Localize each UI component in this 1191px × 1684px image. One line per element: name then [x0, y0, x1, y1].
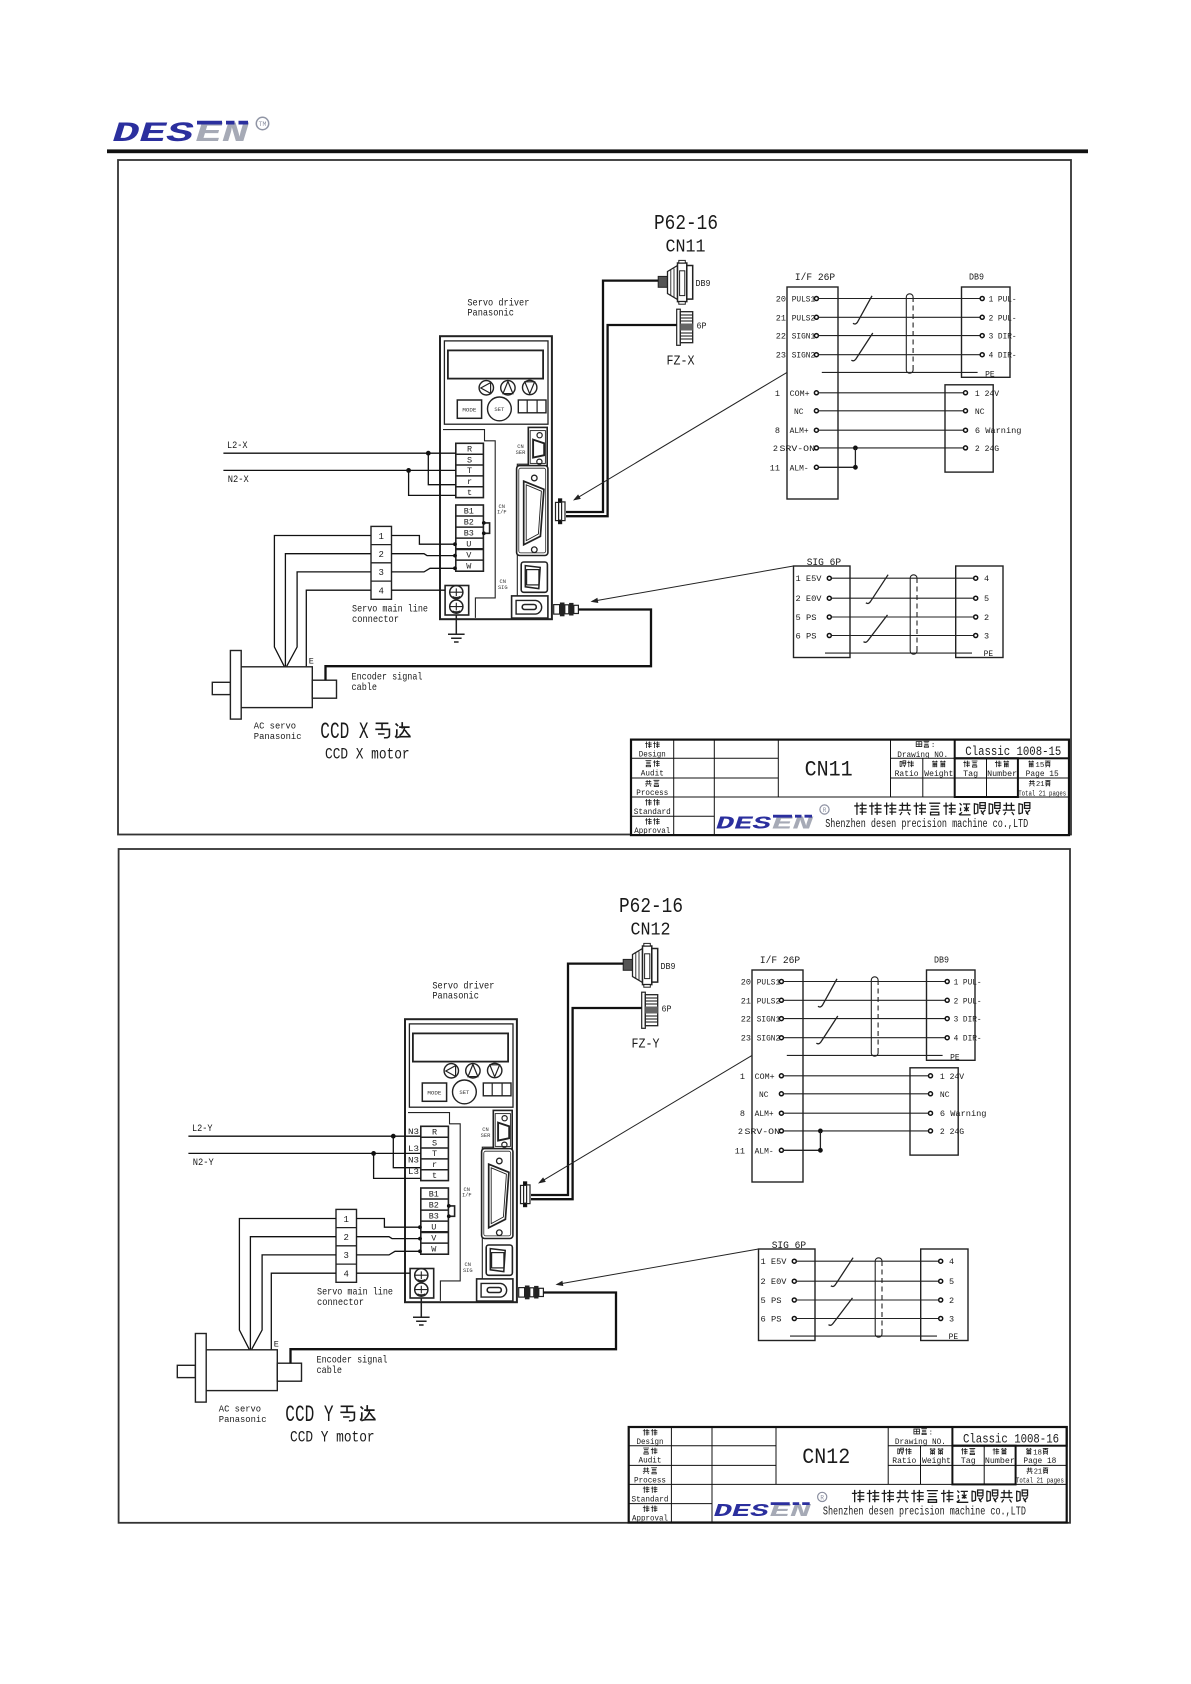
- twist mark pair PS: [829, 1298, 853, 1325]
- connector CN SER (D-sub face): [493, 1110, 512, 1149]
- title Drawing NO.: [895, 1429, 946, 1448]
- svg-text:4: 4: [343, 1269, 348, 1279]
- wire ALM+: [819, 429, 964, 431]
- svg-text:B3: B3: [464, 528, 474, 538]
- svg-text:23: 23: [776, 351, 786, 361]
- svg-text:NC: NC: [759, 1090, 769, 1100]
- svg-text:4: 4: [378, 586, 383, 596]
- wire pin2 to motor: [250, 1237, 336, 1350]
- label Encoder signal cable: [317, 1355, 388, 1378]
- connector SIG 6P box: [759, 1249, 816, 1341]
- svg-text:11: 11: [735, 1146, 745, 1156]
- svg-text:Total 21 pages: Total 21 pages: [1016, 1478, 1064, 1486]
- svg-text:R: R: [820, 1494, 824, 1501]
- header rule: [107, 149, 1088, 153]
- logo DESEN header: [113, 117, 269, 150]
- wire pin1 to U: [357, 1219, 422, 1230]
- title col Number: [985, 1448, 1015, 1466]
- label PE: [950, 1052, 960, 1062]
- svg-text:Approval: Approval: [634, 828, 670, 836]
- button up-arrow: [501, 381, 515, 395]
- cable from 6P plug to CN I/F: [566, 325, 677, 516]
- label CCD X motor (Chinese): [320, 719, 410, 745]
- svg-text:3: 3: [984, 632, 989, 642]
- svg-text:Page 18: Page 18: [1023, 1458, 1056, 1466]
- pin NC: [794, 407, 818, 417]
- wire pin2 to motor: [285, 554, 371, 667]
- svg-text:2: 2: [984, 613, 989, 623]
- svg-text:DES: DES: [716, 814, 772, 835]
- servo driver U1 outline: [440, 336, 552, 619]
- svg-text:PULS1: PULS1: [757, 978, 781, 988]
- pin 6 PS: [796, 632, 832, 642]
- svg-text:Ratio: Ratio: [895, 771, 919, 779]
- wire COM+: [819, 392, 964, 394]
- label PE SIG: [949, 1332, 959, 1342]
- pin 1 COM+: [740, 1072, 784, 1082]
- svg-text:NC: NC: [794, 407, 804, 417]
- pin 4 (right): [939, 1257, 954, 1267]
- wire pin3 to W: [392, 566, 457, 572]
- wire SIG row 1: [831, 577, 973, 579]
- svg-text:1 PUL-: 1 PUL-: [954, 978, 982, 988]
- svg-text:21: 21: [1036, 781, 1044, 789]
- title row Design: [637, 1429, 664, 1447]
- button left-arrow: [479, 381, 493, 395]
- pin 2 SRV-ON: [773, 444, 819, 454]
- svg-text:CCD Y: CCD Y: [285, 1402, 333, 1428]
- plug into CN I/F: [521, 1182, 531, 1207]
- connector SIG 6P box: [794, 566, 851, 658]
- svg-text:P62-16: P62-16: [619, 896, 683, 919]
- leader arrow to CN I/F plug: [538, 1055, 752, 1183]
- terminal strip R S T r t: [421, 1126, 449, 1181]
- svg-text:DES: DES: [714, 1501, 770, 1522]
- svg-text:connector: connector: [352, 614, 399, 626]
- svg-text:1 24V: 1 24V: [940, 1072, 965, 1082]
- svg-text:B2: B2: [429, 1200, 439, 1210]
- svg-text:DB9: DB9: [661, 962, 676, 972]
- button up-arrow: [466, 1064, 480, 1078]
- svg-text:Panasonic: Panasonic: [432, 991, 479, 1003]
- svg-text:DB9: DB9: [969, 272, 984, 282]
- label I/F 26P: [760, 955, 800, 967]
- svg-text:Process: Process: [636, 790, 668, 798]
- svg-text:20: 20: [776, 295, 786, 305]
- wire pin2 to V: [357, 1237, 422, 1241]
- title total pages cell: [1018, 780, 1066, 798]
- wire L2-Y to R: [188, 1134, 420, 1139]
- title col Weight: [924, 761, 953, 779]
- pin 1 24V: [929, 1072, 965, 1082]
- svg-text:2 E0V: 2 E0V: [761, 1277, 788, 1287]
- connector 6P plug (side view): [642, 992, 672, 1028]
- label SIG 6P: [807, 558, 841, 569]
- title CN11: [805, 758, 853, 783]
- encoder signal cable: [291, 1293, 617, 1364]
- title block frame: [631, 740, 1069, 836]
- title col Ratio: [892, 1448, 916, 1466]
- svg-text:SIGN1: SIGN1: [757, 1015, 781, 1025]
- label Encoder signal cable: [352, 672, 423, 695]
- inner partition outline: [443, 430, 528, 618]
- pin NC: [964, 407, 985, 417]
- svg-text:ALM-: ALM-: [755, 1146, 774, 1156]
- svg-text:3: 3: [949, 1315, 954, 1325]
- svg-text:I/F 26P: I/F 26P: [795, 272, 835, 284]
- plug into encoder socket: [519, 1286, 544, 1300]
- svg-text:Panasonic: Panasonic: [467, 308, 514, 320]
- wire SIG row 4: [796, 1318, 938, 1320]
- svg-text:DB9: DB9: [696, 279, 711, 289]
- title drawing number Classic 1008-15: [965, 745, 1061, 759]
- wire PE: [787, 1054, 943, 1056]
- label DB9: [969, 272, 984, 282]
- pin 1 24V: [964, 389, 1000, 399]
- wire pin1 to U: [392, 536, 457, 547]
- svg-text:Design: Design: [637, 1439, 664, 1447]
- svg-text:Approval: Approval: [632, 1516, 668, 1524]
- svg-text:SER: SER: [516, 450, 526, 456]
- svg-text:1 PUL-: 1 PUL-: [989, 295, 1017, 305]
- svg-text:TM: TM: [259, 121, 267, 128]
- wire SIGN2: [784, 1037, 946, 1039]
- pin 1 E5V: [796, 574, 832, 584]
- wire SIG row 1: [796, 1260, 938, 1262]
- label N2-Y: [193, 1158, 214, 1169]
- svg-text:B1: B1: [464, 506, 474, 516]
- company name Chinese: [852, 1490, 1028, 1503]
- button down-arrow: [488, 1063, 502, 1077]
- wire N2-Y to T: [188, 1151, 420, 1156]
- svg-text:2: 2: [773, 444, 778, 454]
- svg-text:Shenzhen desen precision machi: Shenzhen desen precision machine co.,LTD: [825, 818, 1028, 831]
- button SET: [488, 397, 512, 421]
- svg-text:2 PUL-: 2 PUL-: [954, 996, 982, 1006]
- wire SIGN2: [819, 354, 981, 356]
- svg-text:SIG 6P: SIG 6P: [807, 558, 841, 569]
- pin 20 PULS1: [741, 978, 784, 988]
- svg-text:Audit: Audit: [639, 1458, 662, 1466]
- wire SIGN1: [819, 335, 981, 337]
- svg-text:SIG 6P: SIG 6P: [772, 1241, 806, 1252]
- svg-text:V: V: [431, 1234, 437, 1244]
- label CCD Y motor (Chinese): [285, 1402, 375, 1428]
- svg-text:Weight: Weight: [924, 771, 953, 779]
- svg-text:5: 5: [984, 594, 989, 604]
- title page cell: [1023, 1448, 1056, 1466]
- svg-text:1: 1: [740, 1072, 745, 1082]
- pin 2 PUL-: [945, 996, 981, 1006]
- servo main line connector block 1-4: [371, 526, 392, 599]
- label CN SER: [516, 444, 526, 456]
- pin 2 SRV-ON: [738, 1127, 784, 1137]
- title col Weight: [922, 1448, 951, 1466]
- label CN12: [631, 921, 671, 941]
- pin 2 PUL-: [980, 313, 1016, 323]
- panel frame CN12: [119, 849, 1070, 1523]
- title row Design: [639, 742, 666, 760]
- svg-text:Design: Design: [639, 752, 666, 760]
- connector encoder socket: [512, 596, 548, 618]
- svg-text:Standard: Standard: [634, 809, 671, 817]
- svg-text:ALM-: ALM-: [790, 463, 809, 473]
- terminal strip B1 B2 B3 U V W: [456, 505, 484, 572]
- pin NC: [929, 1090, 950, 1100]
- label P62-16: [654, 213, 718, 236]
- pin 2 E0V: [796, 594, 832, 604]
- twist mark pair PS: [864, 615, 888, 642]
- svg-text:t: t: [432, 1171, 437, 1181]
- label P62-16: [619, 896, 683, 919]
- svg-text:B2: B2: [464, 517, 474, 527]
- pin 1 PUL-: [945, 978, 981, 988]
- svg-text:P62-16: P62-16: [654, 213, 718, 236]
- wire COM+: [784, 1075, 929, 1077]
- svg-text:4 DIR-: 4 DIR-: [989, 351, 1017, 361]
- label I/F 26P: [795, 272, 835, 284]
- svg-text:T: T: [467, 466, 472, 476]
- svg-text:1: 1: [378, 532, 383, 542]
- svg-text:5 PS: 5 PS: [796, 613, 817, 623]
- pin 3 DIR-: [945, 1015, 981, 1025]
- title block grid: [631, 740, 1069, 836]
- wire N2-X to T: [223, 468, 455, 473]
- svg-text:cable: cable: [317, 1365, 343, 1377]
- button MODE: [457, 400, 481, 418]
- pin 5 PS: [761, 1296, 797, 1306]
- title total pages cell: [1016, 1468, 1064, 1486]
- pin 22 SIGN1: [741, 1015, 784, 1025]
- screw terminal block: [410, 1269, 434, 1299]
- cable shield SIG: [875, 1258, 882, 1337]
- button MODE: [422, 1083, 446, 1101]
- wire SIGN1: [784, 1018, 946, 1020]
- button down-arrow: [523, 380, 537, 394]
- wire pin3 to W: [357, 1249, 422, 1255]
- cable from DB9 plug to CN I/F: [531, 964, 623, 1195]
- svg-text:E: E: [309, 657, 314, 667]
- svg-text:Drawing NO.: Drawing NO.: [895, 1439, 946, 1447]
- svg-text:Standard: Standard: [632, 1496, 669, 1504]
- svg-text:B1: B1: [429, 1189, 439, 1199]
- svg-text:21: 21: [1034, 1469, 1042, 1477]
- svg-text:L2-X: L2-X: [227, 441, 248, 452]
- logo DESEN small: [714, 1492, 827, 1522]
- svg-text:DB9: DB9: [934, 955, 949, 965]
- label FZ-X: [667, 354, 695, 370]
- svg-text:PULS2: PULS2: [792, 313, 816, 323]
- svg-text:18: 18: [1033, 1449, 1042, 1457]
- svg-text:PE: PE: [984, 649, 994, 659]
- logo DESEN small: [716, 805, 829, 835]
- svg-text:Panasonic: Panasonic: [254, 731, 302, 742]
- svg-text:CCD X motor: CCD X motor: [325, 745, 410, 763]
- svg-text:Ratio: Ratio: [892, 1458, 916, 1466]
- label CN SER: [481, 1127, 491, 1139]
- wire NC: [819, 410, 964, 412]
- svg-text:4: 4: [949, 1257, 954, 1267]
- svg-text:CN12: CN12: [802, 1445, 850, 1470]
- twist mark pair E5V/E0V: [831, 1258, 853, 1287]
- svg-text:FZ-Y: FZ-Y: [632, 1037, 660, 1053]
- servo driver display panel: [444, 341, 548, 424]
- svg-text:Total 21 pages: Total 21 pages: [1018, 790, 1066, 798]
- title Drawing NO.: [897, 741, 948, 760]
- svg-text:NC: NC: [940, 1090, 950, 1100]
- svg-text:Weight: Weight: [922, 1458, 951, 1466]
- svg-text:PULS2: PULS2: [757, 996, 781, 1006]
- cable shield: [871, 977, 878, 1056]
- label L2-X: [227, 441, 248, 452]
- svg-text:6 Warning: 6 Warning: [940, 1109, 987, 1119]
- pin 3 (right): [974, 632, 989, 642]
- svg-text:ALM+: ALM+: [755, 1109, 774, 1119]
- title col Tag: [963, 761, 978, 779]
- svg-text:2 24G: 2 24G: [940, 1127, 964, 1137]
- svg-text:S: S: [467, 455, 472, 465]
- svg-text:20: 20: [741, 978, 751, 988]
- svg-text:CN12: CN12: [631, 921, 671, 941]
- twist mark pair PULS: [853, 296, 872, 324]
- svg-text:3 DIR-: 3 DIR-: [954, 1015, 982, 1025]
- svg-text:R: R: [823, 807, 827, 814]
- title row Approval: [634, 818, 670, 836]
- pin 3 (right): [939, 1315, 954, 1325]
- svg-text:Panasonic: Panasonic: [219, 1414, 267, 1425]
- pin 5 (right): [939, 1277, 954, 1287]
- connector CN SER (D-sub face): [528, 427, 547, 466]
- title col Ratio: [895, 761, 919, 779]
- svg-text:B3: B3: [429, 1211, 439, 1221]
- wire NC: [784, 1093, 929, 1095]
- svg-text:SIGN2: SIGN2: [757, 1034, 781, 1044]
- svg-text:SIG: SIG: [463, 1268, 473, 1274]
- connector 24V box: [910, 1068, 958, 1155]
- wire L2-X to R: [223, 451, 455, 456]
- svg-text:2: 2: [378, 550, 383, 560]
- title drawing number Classic 1008-16: [963, 1433, 1059, 1447]
- pin 11 ALM-: [735, 1146, 784, 1156]
- wire SIG row 3: [831, 616, 973, 618]
- svg-text:L3: L3: [408, 1144, 419, 1154]
- connector DB9 plug (side view): [658, 260, 710, 304]
- wire SIG row 2: [831, 597, 973, 599]
- svg-text:N3: N3: [408, 1127, 419, 1137]
- pin 4 (right): [974, 574, 989, 584]
- wire ALM+: [784, 1112, 929, 1114]
- cable shield SIG: [910, 575, 917, 654]
- svg-text:Process: Process: [634, 1477, 666, 1485]
- svg-text:2: 2: [343, 1233, 348, 1243]
- pin 2 24G: [964, 444, 1000, 454]
- connector 24V box: [945, 385, 993, 472]
- svg-text:PE: PE: [949, 1332, 959, 1342]
- connector DB9 box: [927, 970, 976, 1060]
- svg-text:22: 22: [776, 332, 786, 342]
- label FZ-Y: [632, 1037, 660, 1053]
- svg-text:L2-Y: L2-Y: [192, 1124, 213, 1135]
- company name English: [825, 818, 1028, 831]
- screw terminal block: [445, 586, 469, 616]
- title row Process: [636, 780, 668, 798]
- pin 2 (right): [974, 613, 989, 623]
- svg-text:1 E5V: 1 E5V: [761, 1257, 788, 1267]
- svg-text:1: 1: [343, 1215, 348, 1225]
- wire PULS2: [784, 999, 946, 1001]
- svg-text:PULS1: PULS1: [792, 295, 816, 305]
- title row Approval: [632, 1506, 668, 1524]
- svg-text:8: 8: [740, 1109, 745, 1119]
- svg-text:21: 21: [741, 996, 751, 1006]
- label CN I/F: [497, 504, 507, 516]
- svg-text:DES: DES: [113, 119, 194, 150]
- svg-text:Shenzhen desen precision machi: Shenzhen desen precision machine co.,LTD: [823, 1505, 1026, 1518]
- svg-text:CCD Y motor: CCD Y motor: [290, 1428, 375, 1446]
- pin 6 Warning: [964, 426, 1022, 436]
- labels N3 L3 N3 L3: [408, 1127, 419, 1177]
- svg-text:SIGN1: SIGN1: [792, 332, 816, 342]
- terminal strip R S T r t: [456, 443, 484, 498]
- label SIG 6P: [772, 1241, 806, 1252]
- label AC servo Panasonic: [219, 1404, 267, 1426]
- button left-arrow: [444, 1064, 458, 1078]
- svg-text:PE: PE: [985, 369, 995, 379]
- pin 21 PULS2: [776, 313, 819, 323]
- pin 2 24G: [929, 1127, 965, 1137]
- connector CN SIG: [486, 1245, 512, 1275]
- pin 2 (right): [939, 1296, 954, 1306]
- pin 20 PULS1: [776, 295, 819, 305]
- leader arrow to CN I/F plug: [573, 372, 787, 500]
- svg-text:Tag: Tag: [963, 771, 978, 779]
- pin 22 SIGN1: [776, 332, 819, 342]
- wire pin3 to motor: [287, 572, 371, 667]
- svg-text:R: R: [432, 1128, 437, 1138]
- leader arrow to encoder plug: [556, 1249, 759, 1286]
- pin NC: [759, 1090, 783, 1100]
- svg-text:Number: Number: [985, 1458, 1015, 1466]
- svg-text:CN11: CN11: [805, 758, 853, 783]
- terminal strip B1 B2 B3 U V W: [421, 1188, 449, 1255]
- wire junction to t: [374, 1153, 421, 1178]
- pin 1 COM+: [775, 389, 819, 399]
- svg-text:6 Warning: 6 Warning: [975, 426, 1022, 436]
- title row Standard: [634, 799, 671, 817]
- title row Process: [634, 1467, 666, 1485]
- svg-text:4: 4: [984, 574, 989, 584]
- panel frame CN11: [118, 160, 1071, 835]
- svg-text:Classic 1008-15: Classic 1008-15: [965, 745, 1061, 759]
- svg-text:Tag: Tag: [961, 1458, 976, 1466]
- pin 5 (right): [974, 594, 989, 604]
- title col Tag: [961, 1448, 976, 1466]
- svg-text:MODE: MODE: [427, 1090, 442, 1097]
- connector I/F 26P box: [752, 970, 803, 1182]
- twist mark pair SIGN: [851, 333, 872, 361]
- connector CN SIG: [521, 562, 547, 592]
- svg-text:r: r: [432, 1160, 437, 1170]
- connector CN I/F (D-sub face): [482, 1149, 513, 1239]
- svg-text:connector: connector: [317, 1297, 364, 1309]
- svg-text:23: 23: [741, 1034, 751, 1044]
- svg-text:L3: L3: [408, 1167, 419, 1177]
- svg-text:6 PS: 6 PS: [761, 1315, 782, 1325]
- title page cell: [1026, 761, 1059, 779]
- svg-text:1 24V: 1 24V: [975, 389, 1000, 399]
- pin 8 ALM+: [775, 426, 819, 436]
- twist mark pair PULS: [818, 979, 837, 1007]
